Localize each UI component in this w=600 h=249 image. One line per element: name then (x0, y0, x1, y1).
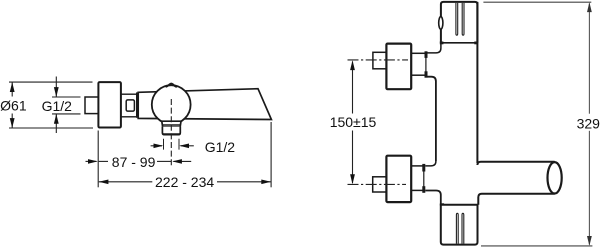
dimension G1/2 inlet arrow up (from below) (54, 114, 59, 133)
dimension G1/2 inlet extension line top (52, 96, 81, 98)
upper union joint line (425, 57, 427, 72)
svg-text:Ø61: Ø61 (0, 97, 27, 113)
svg-text:222 - 234: 222 - 234 (155, 174, 214, 190)
dimension 222-234 line left segment with outward arrow (99, 180, 153, 185)
valve body circle (152, 85, 191, 124)
lower wall pipe (373, 177, 387, 192)
dimension 87-99 arrow left-pointing (172, 159, 191, 164)
lower inlet centerline (dash-dot) (348, 183, 407, 185)
dimension G1/2 inlet arrow down (from above) (54, 77, 59, 98)
handle junction tick (440, 203, 444, 206)
dimension 150+-15 arrow up (350, 60, 355, 113)
thermostat head (441, 2, 478, 43)
upper inlet centerline (dash-dot) (348, 59, 409, 61)
lower neck top elbow to column (425, 161, 436, 166)
dimension 329 bottom extension line (481, 245, 592, 247)
union nut (126, 100, 134, 111)
connector pipe top edge (121, 93, 136, 95)
dimension G1/2 inlet extension line bottom (52, 113, 81, 115)
dimension 222-234 line right segment with outward arrow (217, 180, 271, 185)
handle grip right rib (462, 213, 464, 244)
upper neck bottom edge (411, 74, 425, 76)
outlet nut bottom thick edge (163, 133, 180, 135)
body bar and spout (138, 89, 271, 120)
svg-text:G1/2: G1/2 (42, 98, 73, 114)
wall plane extension line (97, 131, 99, 188)
spout bottom edge with step (478, 194, 554, 205)
head step tick left (440, 42, 444, 45)
head grip right rib (462, 3, 464, 35)
lower neck bottom elbow to handle (425, 191, 441, 205)
dimension 329 line upper segment with arrow up (587, 2, 592, 114)
lower neck bottom edge (411, 189, 422, 191)
body flange (136, 92, 138, 117)
head oval button (439, 17, 443, 30)
wall pipe (side view) (85, 97, 98, 114)
dimension D61 arrow down (10, 114, 15, 129)
svg-text:329: 329 (577, 116, 600, 132)
lower neck bottom tick (422, 186, 425, 193)
dimension 150+-15 arrow down (350, 131, 355, 185)
dimension 329 top extension line (483, 1, 591, 3)
upper neck top tick (425, 51, 428, 58)
dimension 329 line lower segment with arrow down (587, 131, 592, 246)
spout tip extension line (270, 122, 272, 187)
outlet dimension arrow left-pointing (179, 144, 194, 149)
escutcheon (side view) (98, 82, 121, 127)
svg-text:150±15: 150±15 (330, 114, 377, 130)
outlet extension line right (178, 139, 180, 150)
outlet extension line left (163, 139, 165, 150)
handle grip left rib (456, 213, 458, 244)
lower escutcheon (386, 156, 411, 202)
upper neck top edge (411, 52, 425, 54)
dimension 87-99 arrow right-pointing (86, 159, 98, 164)
connector pipe bottom edge (121, 116, 136, 118)
head grip left rib (456, 3, 458, 35)
head step line (440, 42, 478, 44)
dimension D61 arrow up (10, 82, 15, 96)
dimension D61 extension line top (9, 81, 93, 83)
upper neck bottom tick (425, 71, 428, 77)
upper neck top elbow to head (427, 43, 441, 53)
centerline through outlet (dashed) (170, 99, 172, 166)
outlet collar (162, 121, 181, 126)
head step tick right (474, 42, 477, 45)
dimension 87-99 line left segment (99, 160, 108, 162)
upper escutcheon (386, 44, 411, 90)
dimension D61 extension line bottom (9, 127, 93, 129)
lower neck top edge (411, 165, 422, 167)
outlet dimension arrow right-pointing (151, 144, 164, 149)
lower union joint line (423, 171, 425, 188)
svg-text:G1/2: G1/2 (205, 139, 236, 155)
outlet nut (162, 127, 180, 135)
svg-text:87 - 99: 87 - 99 (112, 154, 156, 170)
lower neck top tick (422, 164, 425, 172)
spout top edge (477, 162, 554, 165)
column right edge (476, 2, 478, 163)
volume handle (441, 205, 478, 245)
dimension 87-99 line right segment (157, 160, 171, 162)
spout end ellipse (548, 162, 562, 193)
outlet collar band line (162, 124, 180, 126)
upper wall pipe (373, 52, 387, 69)
lever bump on circle top (166, 84, 176, 87)
column left edge with elbow from upper neck (427, 77, 436, 161)
